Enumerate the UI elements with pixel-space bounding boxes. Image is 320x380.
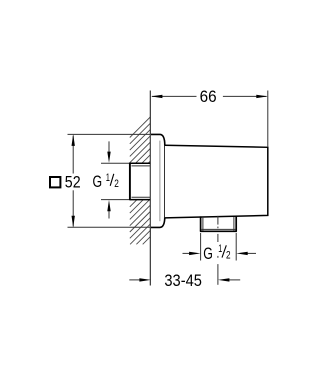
dimension 52 (left) [50,134,150,227]
square symbol [50,177,60,187]
svg-text:2: 2 [226,250,231,262]
inlet pipe G1/2 behind wall [101,163,150,201]
wall flange (escutcheon, side view) [151,134,165,227]
svg-text:52: 52 [65,173,81,192]
svg-text:2: 2 [114,178,119,190]
inlet thread dimension arrows [107,141,110,218]
svg-text:33-45: 33-45 [164,271,202,290]
outlet centerline (dash-dot) [217,216,219,285]
elbow body [165,145,268,218]
outlet nipple G1/2 [200,216,237,232]
svg-text:1: 1 [218,243,222,255]
dimension G 1/2 (outlet) [183,233,257,263]
svg-text:66: 66 [200,87,217,106]
svg-text:1: 1 [106,172,110,184]
dimension 33-45 (bottom) [129,271,240,290]
svg-text:G: G [93,173,103,191]
wall face line (also extension line for 66 and 33-45 dims) [149,91,151,286]
flange inner edge line [159,141,161,222]
dimension 66 (top) [151,87,268,147]
label G 1/2 (inlet) [93,172,119,191]
svg-text:G: G [203,245,213,263]
wall hatching [130,117,151,244]
